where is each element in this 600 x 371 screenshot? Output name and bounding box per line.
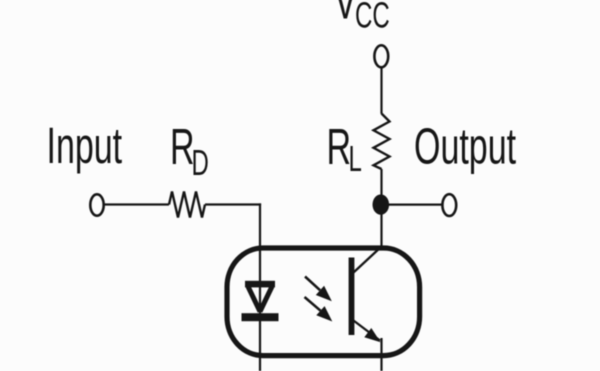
svg-text:Input: Input [47,118,123,174]
svg-text:D: D [192,143,209,183]
svg-text:L: L [349,139,362,179]
svg-text:CC: CC [355,0,390,36]
svg-text:Output: Output [414,119,516,175]
svg-text:V: V [334,0,357,30]
svg-text:R: R [327,119,352,175]
